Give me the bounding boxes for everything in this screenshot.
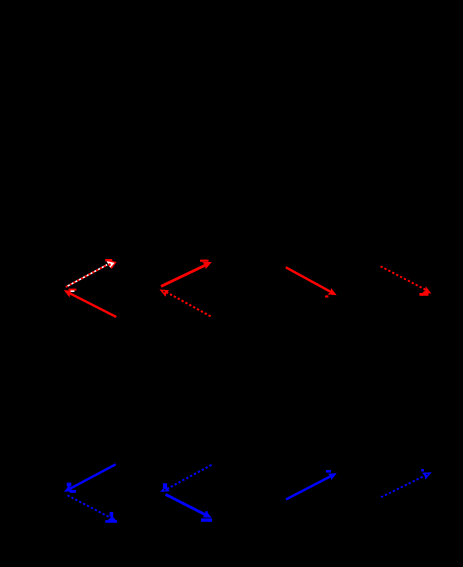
red arrow R4 open head (159, 289, 169, 297)
blue arrow B1 target bar (70, 490, 76, 493)
red solid map arrow R3 shaft (161, 264, 208, 287)
blue arrow B6 element square (421, 469, 424, 472)
red arrow R2 white halo under bar (71, 290, 75, 292)
red arrow R5 target underline bar (325, 295, 328, 297)
blue arrow B4 target underline bar (201, 518, 212, 521)
blue arrow B4 head (202, 511, 211, 518)
blue arrow B6 open head (422, 472, 432, 479)
red arrow R3 head (202, 262, 212, 269)
blue dashed lift arrow B6 dashes (381, 475, 426, 497)
blue arrow B3 open head (160, 484, 170, 492)
red arrow R2 target overline bar (69, 289, 77, 291)
red arrow R1 open head (red outline) (105, 259, 116, 269)
blue dashed lift arrow B3 dashes (167, 465, 212, 489)
red solid map arrow R2 shaft (68, 292, 116, 317)
blue arrow B3 element stem (163, 483, 167, 488)
red dashed lift arrow R1 white underlay (66, 265, 107, 287)
blue solid map arrow B1 shaft (68, 464, 116, 489)
red dashed image arrow R6 dashes (381, 266, 428, 291)
red arrow R1 element dot (108, 263, 111, 266)
red arrow R1 open head white interior (106, 261, 114, 268)
red arrow R6 head (422, 286, 431, 293)
red dashed lift arrow R4 dashes (166, 292, 211, 317)
blue arrow B4 element stem (205, 511, 208, 514)
blue dashed image arrow B2 dashes (68, 495, 113, 519)
blue arrow B5 target overline bar (326, 470, 331, 473)
blue arrow B2 target underline bar (105, 520, 117, 523)
red arrow R5 head (328, 288, 337, 295)
blue arrow B5 head (328, 473, 337, 480)
red arrow R6 target underline bar (419, 293, 428, 296)
red solid map arrow R5 shaft (286, 267, 333, 293)
blue solid map arrow B4 shaft (166, 494, 209, 516)
blue arrow B2 head (108, 514, 117, 521)
red arrow R2 head (64, 290, 73, 297)
blue solid map arrow B5 shaft (286, 475, 333, 499)
red dashed lift arrow R1 dashes (66, 265, 107, 287)
red arrow R3 target overline bar (200, 260, 209, 262)
blue arrow B1 head (64, 485, 73, 492)
red arrow R1 head top bar (105, 259, 112, 261)
blue arrow B2 element stem (110, 512, 114, 517)
blue arrow B1 element stem (67, 483, 72, 487)
